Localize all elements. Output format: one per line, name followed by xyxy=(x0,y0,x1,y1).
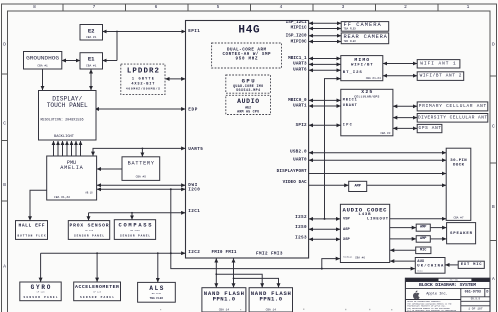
svg-text:AMP: AMP xyxy=(420,226,426,230)
svg-text:MIPI0C: MIPI0C xyxy=(291,39,307,44)
svg-text:I2S3: I2S3 xyxy=(295,236,307,241)
svg-text:CBA #1-#4: CBA #1-#4 xyxy=(366,77,381,80)
svg-text:CORTEX-A9 W/ SMP: CORTEX-A9 W/ SMP xyxy=(223,52,271,57)
svg-text:8: 8 xyxy=(33,4,36,10)
svg-text:A: A xyxy=(492,276,495,282)
svg-text:VIDEO DAC: VIDEO DAC xyxy=(283,180,307,185)
svg-text:ISP_I2C1: ISP_I2C1 xyxy=(286,20,307,25)
svg-text:CBA #6: CBA #6 xyxy=(355,257,365,260)
svg-text:UBANT: UBANT xyxy=(343,104,358,108)
svg-text:AUX: AUX xyxy=(417,260,425,264)
svg-text:MIMO: MIMO xyxy=(354,57,369,63)
svg-text:REAR CAMERA: REAR CAMERA xyxy=(344,34,388,40)
svg-text:ACCELEROMETER: ACCELEROMETER xyxy=(75,284,119,290)
svg-text:1 GBYTE: 1 GBYTE xyxy=(132,77,155,81)
svg-text:WIFI ANT 1: WIFI ANT 1 xyxy=(420,61,456,66)
svg-text:X25: X25 xyxy=(361,89,372,95)
svg-text:D: D xyxy=(3,42,6,48)
svg-text:CBA #3: CBA #3 xyxy=(380,132,390,135)
svg-text:I2S0: I2S0 xyxy=(295,225,307,230)
svg-text:AB 10: AB 10 xyxy=(85,191,93,194)
svg-text:UART5: UART5 xyxy=(188,147,203,152)
svg-text:PPN1.0: PPN1.0 xyxy=(213,296,236,303)
svg-text:CBA #5: CBA #5 xyxy=(136,176,147,179)
svg-text:1 OF 107: 1 OF 107 xyxy=(468,308,483,311)
svg-text:BLOCK DIAGRAM: SYSTEM: BLOCK DIAGRAM: SYSTEM xyxy=(419,282,476,288)
svg-text:I2C2: I2C2 xyxy=(188,250,200,255)
svg-text:XSP: XSP xyxy=(343,238,351,242)
svg-text:SPEAKER: SPEAKER xyxy=(450,232,473,236)
svg-text:AUDIO: AUDIO xyxy=(237,98,259,105)
svg-text:PPN1.0: PPN1.0 xyxy=(260,296,283,303)
svg-text:IPC: IPC xyxy=(343,124,353,128)
svg-text:CBA #1: CBA #1 xyxy=(86,36,97,39)
svg-text:DOCK: DOCK xyxy=(453,163,465,167)
svg-text:AMELIA: AMELIA xyxy=(60,165,83,171)
svg-text:TBA FLEX: TBA FLEX xyxy=(344,28,357,31)
svg-text:FMI2 FMI3: FMI2 FMI3 xyxy=(256,252,283,257)
svg-text:BH 1234: BH 1234 xyxy=(152,292,162,295)
svg-text:B: B xyxy=(492,204,495,210)
svg-text:CBA 14: CBA 14 xyxy=(266,308,277,311)
svg-text:WIFI/BT ANT 2: WIFI/BT ANT 2 xyxy=(420,74,462,79)
svg-text:MICBIAS: MICBIAS xyxy=(343,256,353,259)
svg-text:EDP: EDP xyxy=(188,108,197,113)
svg-text:MBIC0_0: MBIC0_0 xyxy=(288,98,307,103)
svg-text:AK 1234: AK 1234 xyxy=(130,229,140,232)
svg-text:Apple Inc.: Apple Inc. xyxy=(426,291,448,296)
svg-text:L43B: L43B xyxy=(359,213,372,217)
svg-text:VSP: VSP xyxy=(343,218,351,222)
svg-text:I2S2: I2S2 xyxy=(295,215,307,220)
svg-text:DISPLAYPORT: DISPLAYPORT xyxy=(277,169,307,174)
svg-text:4X32-BIT: 4X32-BIT xyxy=(131,83,155,87)
svg-text:TBD FLEX: TBD FLEX xyxy=(344,40,357,43)
svg-text:I2C1: I2C1 xyxy=(188,209,200,214)
svg-text:CELLULAR/GPS: CELLULAR/GPS xyxy=(354,94,379,98)
svg-text:UART6: UART6 xyxy=(293,68,307,73)
svg-text:4: 4 xyxy=(280,4,283,10)
svg-text:SENSOR PANEL: SENSOR PANEL xyxy=(24,296,58,299)
svg-text:D: D xyxy=(492,42,495,48)
svg-text:GROUNDHOG: GROUNDHOG xyxy=(26,56,59,62)
svg-text:6: 6 xyxy=(155,4,158,10)
svg-text:TOUCH PANEL: TOUCH PANEL xyxy=(47,102,88,109)
svg-text:HALL EFF: HALL EFF xyxy=(19,223,45,229)
svg-text:CBA 14: CBA 14 xyxy=(219,308,230,311)
svg-text:USB2.0: USB2.0 xyxy=(290,150,307,155)
svg-text:C: C xyxy=(3,121,6,127)
svg-text:FMI0 FMI1: FMI0 FMI1 xyxy=(212,250,237,255)
svg-text:MIC: MIC xyxy=(420,248,427,252)
svg-text:WIFI/BT: WIFI/BT xyxy=(351,63,373,68)
svg-text:UART1: UART1 xyxy=(293,104,307,109)
svg-text:E1: E1 xyxy=(88,56,95,63)
svg-text:CBA #1: CBA #1 xyxy=(86,65,97,68)
svg-text:400MHZ/800MB/S: 400MHZ/800MB/S xyxy=(126,87,160,91)
svg-text:REV 051: REV 051 xyxy=(450,278,459,281)
svg-text:RESOLUTION: 2048X1536: RESOLUTION: 2048X1536 xyxy=(41,119,84,123)
svg-text:CBA #1: CBA #1 xyxy=(37,65,48,68)
svg-text:BT_I2S: BT_I2S xyxy=(343,71,363,75)
svg-text:CBA #7: CBA #7 xyxy=(453,217,463,220)
svg-text:BUTTON FLEX: BUTTON FLEX xyxy=(18,235,46,238)
svg-text:BATTERY: BATTERY xyxy=(128,161,155,167)
svg-text:ISP_I2C0: ISP_I2C0 xyxy=(286,34,307,39)
svg-text:3: 3 xyxy=(342,4,345,10)
svg-text:SENSOR PANEL: SENSOR PANEL xyxy=(74,235,104,238)
svg-text:AMP: AMP xyxy=(420,237,426,241)
svg-text:7: 7 xyxy=(93,4,96,10)
svg-text:LPDDR2: LPDDR2 xyxy=(127,67,159,75)
svg-text:SF 123: SF 123 xyxy=(93,291,102,294)
svg-text:BACKLIGHT: BACKLIGHT xyxy=(54,135,75,139)
svg-text:950 MHZ: 950 MHZ xyxy=(236,58,258,62)
svg-text:SGX543-MP4: SGX543-MP4 xyxy=(236,88,260,92)
svg-text:GPS ANT: GPS ANT xyxy=(419,126,442,131)
svg-text:2: 2 xyxy=(404,4,407,10)
svg-text:5: 5 xyxy=(217,4,220,10)
svg-text:CBA #1,#2: CBA #1,#2 xyxy=(54,196,70,199)
svg-text:MBIC1_1: MBIC1_1 xyxy=(288,56,307,61)
svg-text:LINEOUT: LINEOUT xyxy=(367,218,389,222)
svg-text:E2: E2 xyxy=(88,28,95,35)
svg-text:EXT MIC: EXT MIC xyxy=(461,263,482,267)
svg-text:ASP: ASP xyxy=(343,228,351,232)
svg-text:MCIU: MCIU xyxy=(417,270,423,273)
svg-text:09.9.9: 09.9.9 xyxy=(471,298,481,301)
svg-text:UART0: UART0 xyxy=(293,157,307,162)
svg-text:SPI2: SPI2 xyxy=(296,123,307,128)
svg-text:B: B xyxy=(3,182,6,188)
svg-text:A: A xyxy=(3,264,6,270)
svg-text:TBA FLEX: TBA FLEX xyxy=(150,297,164,300)
svg-text:AMP: AMP xyxy=(354,185,360,189)
svg-text:D: D xyxy=(486,291,488,295)
svg-text:EPI1: EPI1 xyxy=(188,29,200,34)
svg-text:C: C xyxy=(492,124,495,130)
svg-text:051-9793: 051-9793 xyxy=(465,291,481,295)
svg-text:PROX SENSOR: PROX SENSOR xyxy=(70,223,109,229)
svg-text:SF 123: SF 123 xyxy=(37,291,46,294)
svg-text:1: 1 xyxy=(467,4,470,10)
svg-text:H4G: H4G xyxy=(238,24,260,36)
svg-text:DIVERSITY CELLULAR ANT: DIVERSITY CELLULAR ANT xyxy=(418,115,487,120)
svg-text:SENSOR PANEL: SENSOR PANEL xyxy=(120,235,150,238)
svg-text:30-PIN: 30-PIN xyxy=(450,159,467,163)
svg-text:SENSOR PANEL: SENSOR PANEL xyxy=(80,296,114,299)
svg-text:MIPI1C: MIPI1C xyxy=(291,26,307,31)
svg-text:ARM A5 CPU: ARM A5 CPU xyxy=(237,109,259,113)
svg-text:PRIMARY CELLULAR ANT: PRIMARY CELLULAR ANT xyxy=(419,104,487,109)
svg-text:SF 123: SF 123 xyxy=(85,229,94,232)
svg-text:UART3: UART3 xyxy=(293,62,307,67)
svg-text:MBIC1: MBIC1 xyxy=(343,99,357,103)
svg-text:I2C0: I2C0 xyxy=(188,188,200,193)
